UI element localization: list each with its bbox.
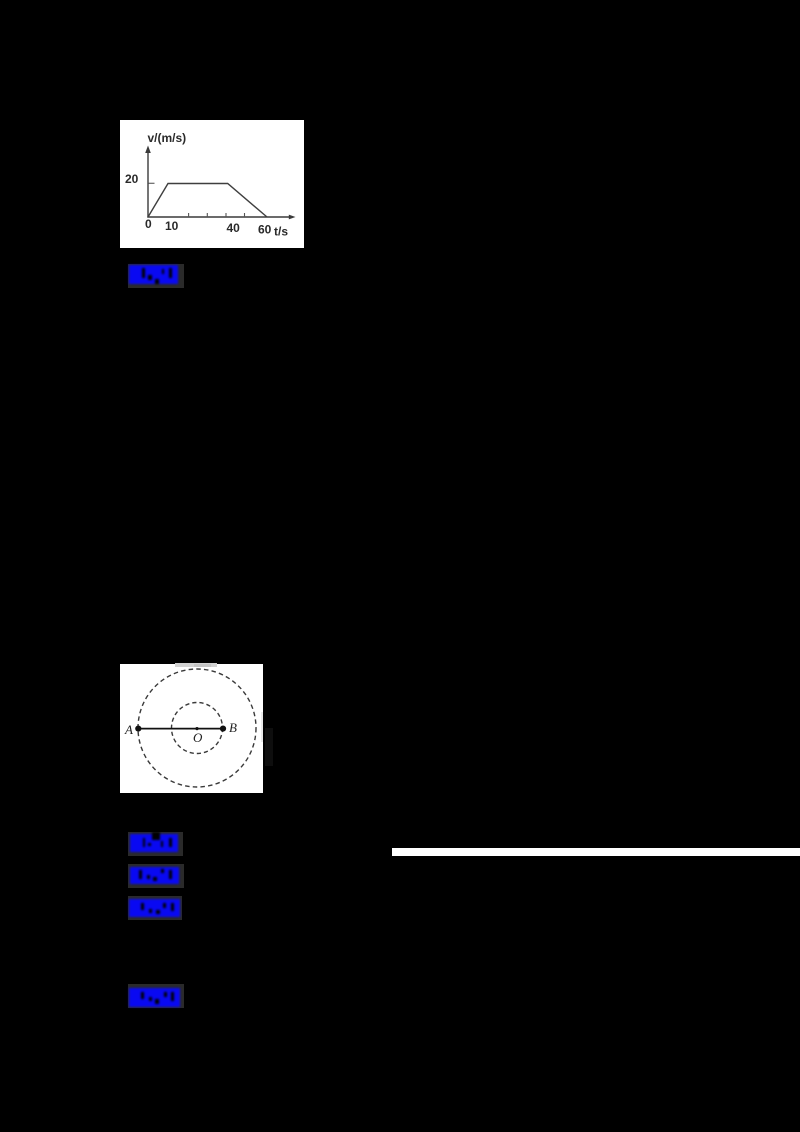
svg-text:A: A xyxy=(124,722,133,737)
svg-text:0: 0 xyxy=(145,217,152,231)
svg-text:t/s: t/s xyxy=(274,224,288,238)
svg-text:O: O xyxy=(193,730,203,745)
svg-text:40: 40 xyxy=(227,221,241,235)
svg-text:B: B xyxy=(229,720,237,735)
svg-text:10: 10 xyxy=(165,219,179,233)
svg-text:20: 20 xyxy=(125,172,139,186)
svg-text:60: 60 xyxy=(258,222,272,236)
svg-text:v/(m/s): v/(m/s) xyxy=(148,131,187,145)
